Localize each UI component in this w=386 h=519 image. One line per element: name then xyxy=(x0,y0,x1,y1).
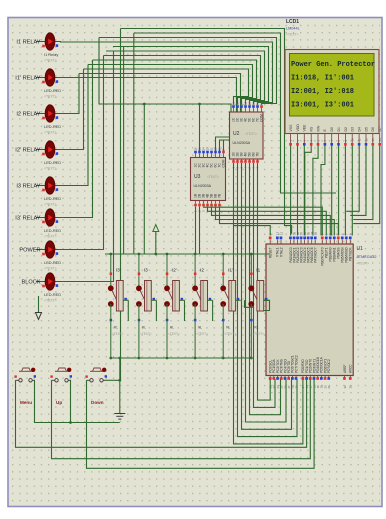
wire LCD D0 xyxy=(331,146,333,236)
svg-text:I2: I2 xyxy=(200,268,204,273)
svg-text:<TEXT>: <TEXT> xyxy=(140,332,152,336)
svg-text:AREF: AREF xyxy=(343,364,347,373)
svg-text:I2' RELAY: I2' RELAY xyxy=(15,147,40,153)
svg-text:ATMEGA32: ATMEGA32 xyxy=(357,255,377,259)
U1 pin 7 PB6/MISO xyxy=(345,240,347,245)
svg-text:D1: D1 xyxy=(337,127,341,132)
wire Down run xyxy=(87,380,315,469)
svg-text:29: 29 xyxy=(294,385,298,389)
wire U3 out3 to U1 xyxy=(204,207,323,236)
wire bus5 xyxy=(113,47,269,105)
U1 pin 28 PC6/TOSC1 xyxy=(291,376,293,380)
svg-text:D5: D5 xyxy=(364,127,368,132)
svg-text:RL: RL xyxy=(142,326,146,330)
svg-text:LED-RED: LED-RED xyxy=(44,260,61,265)
U1 pin 18 PD4/OC1B xyxy=(317,376,319,380)
svg-text:10: 10 xyxy=(351,138,355,142)
svg-text:LED-RED: LED-RED xyxy=(44,292,61,297)
wire LCD RS xyxy=(305,146,311,236)
svg-text:<TEXT>: <TEXT> xyxy=(252,332,264,336)
svg-text:XTAL2: XTAL2 xyxy=(279,247,283,257)
wire riser x133 xyxy=(133,33,135,254)
svg-text:LED-RED: LED-RED xyxy=(44,160,61,165)
U3 top pin 16 xyxy=(195,153,197,157)
wire bus7 xyxy=(104,56,261,105)
svg-text:32: 32 xyxy=(343,385,347,389)
U1 pin 22 PC0/SCL xyxy=(269,376,271,380)
U1 pin 37 PA3/ADC3 xyxy=(300,240,302,245)
svg-text:PC7/TOSC2: PC7/TOSC2 xyxy=(294,355,298,373)
wire Up run xyxy=(52,380,311,459)
junction rail bottom 3 xyxy=(166,357,169,360)
junction U3 feed xyxy=(198,103,201,106)
wire LCD D1 xyxy=(338,146,340,236)
relay RL3 I2' xyxy=(164,254,184,358)
svg-text:I3 RELAY: I3 RELAY xyxy=(16,183,40,189)
U1 pin 15 PD1/TXD xyxy=(306,376,308,380)
LED D8 BLOCK xyxy=(36,273,61,290)
wire LCD D4 xyxy=(346,146,359,212)
U2 bottom pin 5 xyxy=(249,159,251,162)
U1 pin 34 PA6/ADC6 xyxy=(311,240,313,245)
wire net T2 xyxy=(134,33,336,193)
U1 pin 33 PA7/ADC7 xyxy=(314,240,316,245)
wire LED3 riser xyxy=(60,74,79,114)
LCD pin 13 D6 xyxy=(372,134,374,144)
svg-text:U1: U1 xyxy=(357,246,364,252)
U2 top pin 9 xyxy=(261,108,263,112)
U1 pin 8 PB7/SCK xyxy=(349,240,351,245)
junction rail top 1 xyxy=(109,253,112,256)
svg-text:12: 12 xyxy=(364,138,368,142)
junction rail top 5 xyxy=(222,253,225,256)
wire nest1 xyxy=(234,163,303,444)
svg-text:30: 30 xyxy=(349,385,353,389)
LCD screen xyxy=(290,54,375,117)
U2 bottom pin 3 xyxy=(241,159,243,162)
LCD pin 10 D3 xyxy=(351,134,353,144)
svg-text:POWER: POWER xyxy=(19,247,40,253)
svg-text:RESET: RESET xyxy=(269,247,273,258)
wire nest2 xyxy=(238,163,298,437)
U1 pin 20 PD6/ICP1 xyxy=(324,376,326,380)
svg-text:13: 13 xyxy=(371,138,375,142)
U3 top pin 11 xyxy=(215,153,217,157)
svg-text:U2: U2 xyxy=(233,131,240,137)
wire U3 out5 to U1 xyxy=(212,207,331,236)
svg-text:I1: I1 xyxy=(256,268,260,273)
wire bus8 xyxy=(93,60,257,105)
svg-text:21: 21 xyxy=(327,385,331,389)
wire U3 out1 drop xyxy=(195,207,197,255)
wire POWER riser xyxy=(60,56,104,250)
LCD pin 14 D7 xyxy=(379,134,381,144)
LED D4 I2' RELAY xyxy=(36,141,61,158)
wire block-arrow xyxy=(38,296,40,313)
junction rail bottom 1 xyxy=(109,357,112,360)
svg-text:I1' RELAY: I1' RELAY xyxy=(15,75,40,81)
U3 bottom pin 3 xyxy=(203,201,205,204)
U3 bottom pin 2 xyxy=(199,201,201,204)
junction rail top 2 xyxy=(138,253,141,256)
svg-text:D0: D0 xyxy=(330,127,334,132)
relay RL5 I1' xyxy=(220,254,240,358)
wire LED6 riser xyxy=(60,60,93,218)
svg-text:VSS: VSS xyxy=(289,124,293,132)
svg-text:I1': I1' xyxy=(228,268,233,273)
U1 pin 40 PA0/ADC0 xyxy=(290,240,292,245)
LED D2 I1' RELAY xyxy=(36,69,61,86)
wire power to rail xyxy=(155,232,157,255)
LCD pin 8 D1 xyxy=(338,134,340,144)
svg-text:LED-RED: LED-RED xyxy=(44,88,61,93)
U1 pin 5 PB4/SS xyxy=(337,240,339,245)
svg-text:<TEXT>: <TEXT> xyxy=(44,299,57,303)
junction rail top 6 xyxy=(250,253,253,256)
U2 bottom pin 2 xyxy=(237,159,239,162)
push button Menu xyxy=(14,368,36,382)
ground symbol xyxy=(114,414,125,420)
svg-text:RS: RS xyxy=(310,126,314,132)
svg-text:LED-RED: LED-RED xyxy=(44,196,61,201)
LED D6 I3' RELAY xyxy=(36,209,61,226)
U2 top pin 11 xyxy=(253,108,255,112)
svg-text:Menu: Menu xyxy=(20,400,32,405)
wire U3 feed xyxy=(99,104,231,140)
wire relay3 contact stub xyxy=(184,300,186,321)
wire LCD E xyxy=(321,146,325,236)
svg-text:D4: D4 xyxy=(358,127,362,132)
LCD pin 2 VDD xyxy=(297,134,299,144)
svg-text:RL: RL xyxy=(114,326,118,330)
svg-text:PD7/OC2: PD7/OC2 xyxy=(327,359,331,373)
wire bus10 xyxy=(84,69,249,105)
svg-text:<TEXT>: <TEXT> xyxy=(44,235,57,239)
wire LCD D3 xyxy=(351,146,353,236)
LED D1 I1 RELAY xyxy=(36,33,61,50)
junction rail-ground xyxy=(118,357,121,360)
junction power rail xyxy=(154,253,157,256)
LCD1 LM044L body xyxy=(285,50,379,134)
svg-text:<TEXT>: <TEXT> xyxy=(44,59,57,63)
svg-text:RW: RW xyxy=(316,125,320,131)
U1 pin 29 PC7/TOSC2 xyxy=(295,376,297,380)
junction rail bottom 6 xyxy=(250,357,253,360)
svg-text:<TEXT>: <TEXT> xyxy=(44,267,57,271)
svg-text:<TEXT>: <TEXT> xyxy=(44,203,57,207)
U1 pin 9 RESET xyxy=(269,240,271,245)
U1 pin 25 PC3/TMS xyxy=(280,376,282,380)
wire relay2 contact stub xyxy=(155,300,157,321)
wire relay bottom rail xyxy=(111,357,252,359)
U2 bottom pin 1 xyxy=(233,159,235,162)
relay RL4 I2 xyxy=(192,254,212,358)
svg-text:<TEXT>: <TEXT> xyxy=(112,332,124,336)
svg-text:AVCC: AVCC xyxy=(349,364,353,373)
wire Up common drop xyxy=(70,380,72,422)
wire bus6 xyxy=(106,51,265,105)
wire Down common xyxy=(106,379,120,381)
wire nest7 xyxy=(258,163,271,400)
U3 top pin 15 xyxy=(199,153,201,157)
junction rail bottom 5 xyxy=(222,357,225,360)
svg-text:ULN2003A: ULN2003A xyxy=(194,184,212,188)
wire relay4 contact stub xyxy=(212,300,214,321)
junction rail bottom 2 xyxy=(138,357,141,360)
U1 pin 23 PC1/SDA xyxy=(273,376,275,380)
svg-text:PA7/ADC7: PA7/ADC7 xyxy=(314,247,318,262)
svg-text:12: 12 xyxy=(279,231,283,235)
svg-text:I2 RELAY: I2 RELAY xyxy=(16,111,40,117)
wire bus11 xyxy=(79,74,241,152)
LCD pin 5 RW xyxy=(317,134,319,144)
IC U3 ULN2003A body xyxy=(191,158,226,201)
LCD pin 3 VEE xyxy=(303,134,305,144)
svg-text:D7: D7 xyxy=(378,127,382,132)
wire Menu run xyxy=(16,380,307,448)
wire RESET xyxy=(234,226,271,236)
wire bus4 xyxy=(60,42,273,105)
junction ground node xyxy=(118,379,121,382)
wire U3 out4 to U1 xyxy=(208,207,327,236)
svg-text:D3: D3 xyxy=(351,127,355,132)
svg-text:PB7/SCK: PB7/SCK xyxy=(349,247,353,261)
LCD pin 6 E xyxy=(324,134,326,144)
wire feed drop xyxy=(143,104,145,254)
svg-text:ULN2003A: ULN2003A xyxy=(233,141,251,145)
U1 pin 39 PA1/ADC1 xyxy=(293,240,295,245)
svg-text:<TEXT>: <TEXT> xyxy=(44,95,57,99)
wire U3 out2 drop xyxy=(199,207,201,255)
svg-text:U3: U3 xyxy=(194,174,201,180)
svg-text:I2': I2' xyxy=(172,268,177,273)
svg-text:I1 RELAY: I1 RELAY xyxy=(16,39,40,45)
U1 pin 13 XTAL1 xyxy=(276,240,278,245)
wire relay6 link xyxy=(258,300,270,310)
LCD pin 7 D0 xyxy=(331,134,333,144)
U1 pin 32 AREF xyxy=(344,376,346,380)
svg-text:RL: RL xyxy=(170,326,174,330)
svg-text:RL: RL xyxy=(198,326,202,330)
wire bus12 xyxy=(60,78,237,152)
U3 bottom pin 4 xyxy=(207,201,209,204)
svg-text:Down: Down xyxy=(91,400,104,405)
svg-text:<TEXT>: <TEXT> xyxy=(207,175,219,179)
U3 top pin 10 xyxy=(219,153,221,157)
wire riser x99 xyxy=(98,38,100,105)
svg-text:14: 14 xyxy=(378,138,382,142)
U3 top pin 13 xyxy=(207,153,209,157)
svg-text:D2: D2 xyxy=(344,127,348,132)
svg-text:<TEXT>: <TEXT> xyxy=(357,262,370,266)
svg-text:<TEXT>: <TEXT> xyxy=(44,131,57,135)
U1 pin 26 PC4/TDO xyxy=(284,376,286,380)
LED D7 POWER xyxy=(36,241,61,258)
U1 pin 38 PA2/ADC2 xyxy=(297,240,299,245)
LCD pin 4 RS xyxy=(310,134,312,144)
wire LCD RW xyxy=(313,146,318,236)
wire rail riser xyxy=(123,47,125,255)
U2 bottom pin 4 xyxy=(245,159,247,162)
push button Down xyxy=(85,368,107,382)
wire LCD VSS xyxy=(290,146,292,236)
svg-text:LCD1: LCD1 xyxy=(286,19,299,25)
U2 top pin 12 xyxy=(249,108,251,112)
svg-text:<TEXT>: <TEXT> xyxy=(44,167,57,171)
IC U2 ULN2003A body xyxy=(230,112,264,159)
relay RL1 I3' xyxy=(108,254,128,358)
U2 top pin 16 xyxy=(233,108,235,112)
U2 top pin 15 xyxy=(237,108,239,112)
svg-text:COM: COM xyxy=(222,159,226,167)
junction feed drop xyxy=(143,103,146,106)
svg-text:LED-RED: LED-RED xyxy=(44,228,61,233)
U3 top pin 12 xyxy=(211,153,213,157)
relay RL2 I3 xyxy=(136,254,156,358)
wire relay5 link xyxy=(245,300,254,307)
U3 top pin 9 xyxy=(223,153,225,157)
wire LCD VDD xyxy=(297,146,299,236)
U2 top pin 13 xyxy=(245,108,247,112)
U1 pin 30 AVCC xyxy=(349,376,351,380)
wire LED5 riser xyxy=(60,65,88,186)
svg-text:7B: 7B xyxy=(218,193,222,198)
U1 pin 1 PB0/XCK/T0 xyxy=(321,240,323,245)
wire LED4 riser xyxy=(60,69,84,150)
svg-text:<TEXT>: <TEXT> xyxy=(196,332,208,336)
wire nest3 xyxy=(242,163,292,429)
svg-text:<TEXT>: <TEXT> xyxy=(168,332,180,336)
svg-text:BLOCK: BLOCK xyxy=(22,279,41,285)
wire button riser xyxy=(120,29,122,381)
wire U3 out7 to U1 xyxy=(220,207,339,236)
svg-text:D6: D6 xyxy=(371,127,375,132)
wire LCD D6 xyxy=(353,146,373,220)
svg-text:I3' RELAY: I3' RELAY xyxy=(15,215,40,221)
LCD pin 11 D4 xyxy=(358,134,360,144)
svg-text:I3: I3 xyxy=(144,268,148,273)
wire nest6 xyxy=(254,163,276,407)
wire bus9 xyxy=(88,65,253,105)
svg-text:I2:001, I2':018: I2:001, I2':018 xyxy=(291,88,354,96)
U1 pin 12 XTAL2 xyxy=(280,240,282,245)
U2 bottom pin 7 xyxy=(257,159,259,162)
svg-text:LED-RED: LED-RED xyxy=(44,124,61,129)
svg-text:<TEXT>: <TEXT> xyxy=(245,132,257,136)
junction rail top 4 xyxy=(194,253,197,256)
wire U3 pin feed xyxy=(199,104,201,152)
LCD pin 1 VSS xyxy=(290,134,292,144)
U1 pin 16 PD2/INT0 xyxy=(309,376,311,380)
wire LCD D5 xyxy=(350,146,366,216)
svg-text:33: 33 xyxy=(314,231,318,235)
svg-text:Up: Up xyxy=(56,400,62,405)
wire to ground xyxy=(119,358,121,414)
svg-text:I3:001, I3':001: I3:001, I3':001 xyxy=(291,101,354,109)
U1 pin 3 PB2/AIN0 xyxy=(329,240,331,245)
wire BLOCK riser xyxy=(60,51,114,282)
wire relay1 contact stub xyxy=(127,300,129,321)
LED D3 I2 RELAY xyxy=(36,105,61,122)
wire relay top rail xyxy=(105,253,270,255)
svg-text:I1 Relay: I1 Relay xyxy=(44,52,58,57)
svg-text:RL: RL xyxy=(254,326,258,330)
push button Up xyxy=(50,368,72,382)
svg-text:Power Gen. Protector: Power Gen. Protector xyxy=(291,61,375,69)
U1 pin 6 PB5/MOSI xyxy=(341,240,343,245)
svg-text:VEE: VEE xyxy=(303,124,307,132)
power terminal arrow xyxy=(153,225,159,232)
junction Up common xyxy=(69,421,72,424)
U1 pin 21 PD7/OC2 xyxy=(328,376,330,380)
wire net T1 xyxy=(121,29,292,234)
U1 pin 17 PD3/INT1 xyxy=(313,376,315,380)
relay RL6 I1 xyxy=(248,254,268,358)
U1 pin 14 PD0/RXD xyxy=(302,376,304,380)
svg-text:<TEXT>: <TEXT> xyxy=(224,332,236,336)
U2 bottom pin 6 xyxy=(253,159,255,162)
wire U3 pin8 feed xyxy=(224,140,232,152)
U3 top pin 14 xyxy=(203,153,205,157)
svg-text:I3': I3' xyxy=(116,268,121,273)
wire nest5 xyxy=(250,163,281,415)
U3 bottom pin 7 xyxy=(219,201,221,204)
U1 pin 24 PC2/TCK xyxy=(277,376,279,380)
U2 top pin 10 xyxy=(257,108,259,112)
wire U3 out6 to U1 xyxy=(216,207,335,236)
svg-text:COM: COM xyxy=(260,114,264,122)
U1 pin 2 PB1/T1 xyxy=(325,240,327,245)
wire LCD D2 xyxy=(344,146,346,236)
wire nest4 xyxy=(246,163,287,422)
LCD pin 12 D5 xyxy=(365,134,367,144)
svg-text:11: 11 xyxy=(358,138,362,141)
U1 pin 4 PB3/AIN1 xyxy=(333,240,335,245)
U1 pin 19 PD5/OC1A xyxy=(320,376,322,380)
junction rail top 3 xyxy=(166,253,169,256)
U3 bottom pin 6 xyxy=(215,201,217,204)
svg-text:I1:018, I1':001: I1:018, I1':001 xyxy=(291,74,354,82)
svg-text:LM044L: LM044L xyxy=(286,27,300,31)
wire LCD D7 xyxy=(353,146,380,224)
U1 pin 35 PA5/ADC5 xyxy=(307,240,309,245)
junction rail bottom 4 xyxy=(194,357,197,360)
IC U1 ATMEGA32 body xyxy=(266,244,353,376)
wire LCD VEE xyxy=(303,146,305,236)
U1 pin 36 PA4/ADC4 xyxy=(304,240,306,245)
wire Menu common drop xyxy=(35,380,120,422)
U2 top pin 14 xyxy=(241,108,243,112)
svg-text:<TEXT>: <TEXT> xyxy=(286,33,299,37)
LCD pin 9 D2 xyxy=(344,134,346,144)
U1 pin 27 PC5/TDI xyxy=(288,376,290,380)
svg-text:RL: RL xyxy=(226,326,230,330)
LED D5 I3 RELAY xyxy=(36,177,61,194)
svg-text:VDD: VDD xyxy=(296,124,300,132)
U3 bottom pin 1 xyxy=(195,201,197,204)
svg-text:7B: 7B xyxy=(256,152,260,157)
wire bus3 xyxy=(99,38,277,105)
U3 bottom pin 5 xyxy=(211,201,213,204)
